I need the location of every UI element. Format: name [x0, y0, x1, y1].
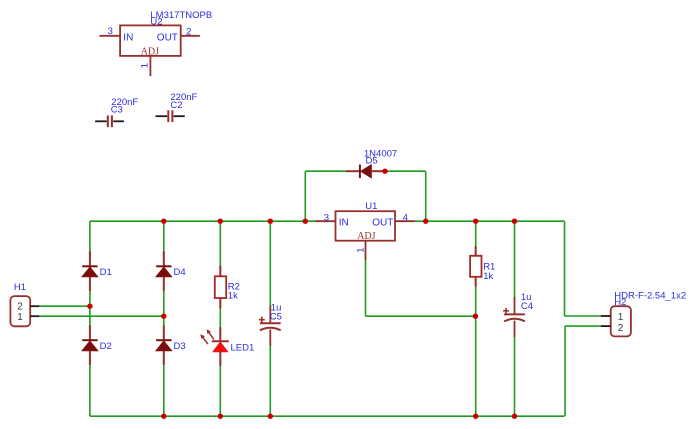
- wire top rail left (IN net): [90, 220, 316, 222]
- D5 triangle: [361, 165, 372, 178]
- wire H2 pin2 horizontal: [565, 325, 601, 327]
- wire U1 ADJ horizontal to R1: [366, 315, 476, 317]
- capacitor C2 right lead: [174, 115, 185, 117]
- junction D5 right lead: [382, 169, 387, 174]
- H1 pin 1 lead: [30, 315, 39, 317]
- wire C4 vertical lower: [514, 336, 516, 416]
- svg-text:H1: H1: [14, 282, 26, 293]
- svg-text:IN: IN: [339, 218, 349, 229]
- svg-text:1k: 1k: [483, 271, 493, 282]
- svg-text:U1: U1: [365, 201, 377, 212]
- wire C5 vertical upper: [269, 221, 271, 307]
- svg-text:OUT: OUT: [372, 218, 393, 229]
- D4 cathode bar: [156, 265, 171, 267]
- svg-text:IN: IN: [123, 32, 133, 43]
- D1 triangle: [82, 267, 98, 277]
- U2 pin OUT (pin 2) stub: [181, 35, 200, 37]
- svg-text:2: 2: [186, 26, 191, 37]
- svg-text:D2: D2: [100, 341, 112, 352]
- D4 top lead: [163, 251, 165, 266]
- wire third vertical (R2/LED1 branch): [219, 221, 221, 416]
- capacitor C2 plates: [167, 110, 169, 122]
- wire D5 loop top left: [305, 170, 346, 172]
- R2 body: [215, 276, 226, 298]
- connector H2 body: [611, 306, 631, 336]
- wire D5 loop left vertical: [304, 171, 306, 221]
- junction top rail / C4 branch: [512, 219, 517, 224]
- wire H1 pin1 to D4 branch: [39, 315, 164, 317]
- junction top rail / D4 branch: [161, 219, 166, 224]
- svg-text:D5: D5: [366, 155, 378, 166]
- LED1 triangle: [213, 342, 228, 352]
- capacitor C3 right lead: [113, 120, 124, 122]
- U2 pin ADJ (pin 1) stub: [149, 56, 151, 76]
- C5 curved plate: [260, 328, 281, 331]
- D1 cathode bar: [82, 265, 97, 267]
- LED1 emission arrow 2: [202, 337, 208, 344]
- svg-text:U2: U2: [150, 16, 162, 27]
- junction top rail / C5 branch: [268, 219, 273, 224]
- C5 bottom lead: [269, 330, 271, 346]
- C4 positive plate: [504, 313, 525, 315]
- junction H1.1 / D4 branch: [161, 314, 166, 319]
- D1 top lead: [89, 251, 91, 266]
- LED1 bottom lead: [219, 352, 221, 366]
- svg-text:1: 1: [17, 312, 23, 323]
- D3 cathode bar: [156, 339, 171, 341]
- wire H2 pin2 vertical to bottom rail: [564, 326, 566, 416]
- junction top rail / D5 loop left: [303, 219, 308, 224]
- U1 pin OUT lead (pin 4): [395, 220, 415, 222]
- junction bottom rail / R1 branch: [473, 414, 478, 419]
- svg-text:D4: D4: [174, 267, 186, 278]
- R1 body: [470, 256, 481, 277]
- svg-text:LED1: LED1: [231, 342, 255, 353]
- wire D5 loop right vertical: [425, 171, 427, 221]
- wire left vertical (D1/D2 branch): [89, 221, 91, 416]
- D1 bottom lead: [89, 277, 91, 291]
- wire right corner vertical to H2 pin1: [564, 221, 566, 316]
- svg-text:H2: H2: [614, 297, 626, 308]
- R1 bottom lead: [475, 277, 477, 287]
- connector H1 body: [10, 296, 30, 326]
- svg-text:C3: C3: [111, 105, 123, 116]
- wire C5 vertical lower: [269, 345, 271, 416]
- svg-text:1: 1: [355, 248, 366, 253]
- D4 triangle: [156, 267, 172, 277]
- junction top rail / R2 branch: [218, 219, 223, 224]
- junction bottom rail / LED1 branch: [218, 414, 223, 419]
- wire top rail right (OUT net): [415, 220, 565, 222]
- wire R1 vertical: [475, 221, 477, 416]
- LED1 emission arrow 1: [208, 332, 214, 340]
- U2 pin IN (pin 3) stub: [100, 35, 121, 37]
- capacitor C2 left lead: [156, 115, 168, 117]
- junction bottom rail / D3 branch: [161, 414, 166, 419]
- D2 cathode bar: [82, 339, 97, 341]
- svg-text:3: 3: [324, 212, 329, 223]
- H2 pin 2 lead: [601, 325, 611, 327]
- regulator U2 box: [120, 25, 181, 56]
- C5 plus sign: [259, 319, 265, 321]
- svg-text:ADJ: ADJ: [357, 231, 375, 242]
- D5 left lead: [346, 170, 360, 172]
- wire bottom rail: [90, 415, 565, 417]
- wire U1 ADJ vertical: [365, 258, 367, 316]
- junction bottom rail / C5 branch: [268, 414, 273, 419]
- junction bottom rail / C4 branch: [512, 414, 517, 419]
- D3 bottom lead: [163, 351, 165, 365]
- U1 pin ADJ lead (pin 1): [365, 241, 367, 260]
- D3 triangle: [156, 341, 172, 351]
- svg-text:1k: 1k: [228, 290, 238, 301]
- junction top rail / D5 loop right: [423, 219, 428, 224]
- C4 bottom lead: [514, 321, 516, 337]
- junction top rail / R1 branch: [473, 219, 478, 224]
- H1 pin 2 lead: [30, 305, 39, 307]
- wire C4 vertical upper: [514, 221, 516, 298]
- svg-text:2: 2: [618, 323, 624, 334]
- C4 top lead: [514, 297, 516, 314]
- svg-text:C5: C5: [270, 311, 282, 322]
- svg-text:1: 1: [140, 63, 151, 68]
- wire H2 pin1 horizontal: [565, 315, 602, 317]
- svg-text:OUT: OUT: [157, 32, 178, 43]
- LED1 cathode bar: [212, 340, 229, 342]
- svg-text:C4: C4: [521, 301, 533, 312]
- wire second vertical (D4/D3 branch): [163, 221, 165, 416]
- capacitor C3 left lead: [95, 120, 107, 122]
- svg-text:4: 4: [403, 213, 408, 224]
- C4 plus sign: [503, 310, 509, 312]
- svg-text:C2: C2: [170, 100, 182, 111]
- D5 cathode bar: [359, 165, 361, 179]
- svg-text:3: 3: [108, 26, 113, 37]
- D4 bottom lead: [163, 277, 165, 291]
- svg-text:D1: D1: [100, 267, 112, 278]
- H2 pin 1 lead: [601, 315, 611, 317]
- svg-text:1: 1: [618, 312, 624, 323]
- regulator U1 box: [336, 211, 396, 241]
- D2 top lead: [89, 325, 91, 340]
- LED1 top lead: [219, 327, 221, 341]
- R2 bottom lead: [219, 298, 221, 309]
- C4 curved plate: [504, 319, 525, 322]
- capacitor C3 plates: [107, 115, 109, 127]
- D2 triangle: [82, 341, 98, 351]
- svg-text:D3: D3: [174, 341, 186, 352]
- C5 positive plate: [260, 322, 281, 324]
- D3 top lead: [163, 325, 165, 340]
- C5 top lead: [269, 306, 271, 323]
- junction ADJ rail / R1 branch: [473, 314, 478, 319]
- U1 pin IN lead (pin 3): [316, 220, 336, 222]
- wire D5 loop top right: [385, 170, 426, 172]
- D2 bottom lead: [89, 351, 91, 365]
- junction H1.2 / D1 branch: [87, 304, 92, 309]
- wire H1 pin2 to D1 branch: [39, 305, 90, 307]
- R1 top lead: [475, 246, 477, 256]
- R2 top lead: [219, 266, 221, 276]
- D5 right lead: [371, 170, 385, 172]
